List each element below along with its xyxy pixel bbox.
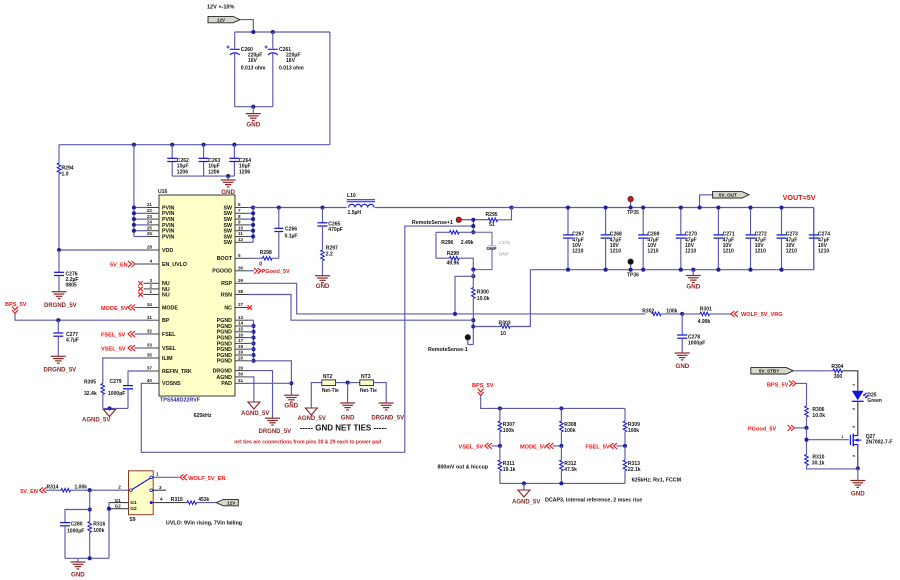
capacitor C265 xyxy=(318,208,343,250)
svg-text:R304: R304 xyxy=(831,364,843,370)
text UVLO note xyxy=(166,520,242,526)
svg-text:10: 10 xyxy=(238,225,244,230)
text S9 G1 G2 designators xyxy=(115,498,122,509)
svg-text:ILIM: ILIM xyxy=(162,356,173,362)
ground GND at R297 xyxy=(315,276,330,290)
svg-text:0.013 ohm: 0.013 ohm xyxy=(241,65,266,71)
svg-text:EN_UVLO: EN_UVLO xyxy=(162,262,187,268)
svg-text:453k: 453k xyxy=(198,497,209,503)
svg-text:RemoteSense-1: RemoteSense-1 xyxy=(428,347,468,353)
svg-text:R302: R302 xyxy=(642,309,654,315)
wire S9 gnd rail xyxy=(65,556,109,560)
svg-text:R299: R299 xyxy=(447,251,459,257)
svg-text:NT3: NT3 xyxy=(361,374,371,380)
svg-text:PVIN: PVIN xyxy=(162,234,175,240)
svg-text:Green: Green xyxy=(867,398,882,404)
diode D25 LED xyxy=(851,383,882,433)
svg-text:G2: G2 xyxy=(130,506,137,512)
wire SW pins vertical xyxy=(248,208,253,243)
svg-text:1000pF: 1000pF xyxy=(108,391,125,397)
svg-text:5V_EN: 5V_EN xyxy=(20,489,38,495)
junction C262 xyxy=(170,143,174,147)
svg-text:R314: R314 xyxy=(47,484,59,490)
svg-text:R300: R300 xyxy=(477,289,489,295)
svg-text:FSEL_5V: FSEL_5V xyxy=(101,333,126,339)
svg-text:19: 19 xyxy=(238,350,244,355)
power flag 5V_OUT xyxy=(698,192,750,210)
svg-text:4: 4 xyxy=(149,259,152,264)
svg-text:Net-Tie: Net-Tie xyxy=(360,388,377,394)
junction PVIN vert xyxy=(132,143,136,147)
resistor R309 xyxy=(623,408,640,446)
resistor R299 xyxy=(436,251,473,270)
wire S9 pin1 WOLF_5V_EN xyxy=(153,472,225,482)
svg-text:22: 22 xyxy=(147,208,153,213)
wire R316 branch xyxy=(88,490,92,521)
svg-text:2.49k: 2.49k xyxy=(461,240,474,246)
svg-text:22.1k: 22.1k xyxy=(628,467,641,473)
port MODE_5V xyxy=(101,305,147,313)
svg-text:Net-Tie: Net-Tie xyxy=(322,388,339,394)
text net ties note xyxy=(234,440,381,446)
svg-text:8: 8 xyxy=(238,214,241,219)
wire PAD41 xyxy=(248,382,291,384)
junction node B xyxy=(471,268,475,279)
port BPS_5V divider xyxy=(472,383,494,395)
capacitor C261 xyxy=(265,32,305,107)
svg-text:R303: R303 xyxy=(499,320,511,326)
svg-text:GND: GND xyxy=(246,122,260,129)
svg-text:R305: R305 xyxy=(84,379,96,385)
power flag 5V_STBY xyxy=(751,368,794,374)
ground DRGND_5V at NT3 xyxy=(371,383,404,422)
svg-text:R308: R308 xyxy=(564,422,576,428)
svg-text:GND: GND xyxy=(316,283,330,290)
wire divider bottom rail xyxy=(500,481,625,485)
svg-text:51: 51 xyxy=(489,222,495,228)
capacitor C262 xyxy=(167,145,189,176)
wire gate node xyxy=(804,428,808,455)
svg-text:VSEL_5V: VSEL_5V xyxy=(459,444,484,450)
svg-text:R315: R315 xyxy=(171,497,183,503)
junction C261 top xyxy=(271,30,275,34)
capacitor C271 xyxy=(713,205,734,271)
svg-text:10.0k: 10.0k xyxy=(812,413,825,419)
capacitor C263 xyxy=(199,145,221,176)
text 625kHz note xyxy=(632,477,682,483)
svg-text:33: 33 xyxy=(147,343,153,348)
svg-text:3: 3 xyxy=(149,278,152,283)
svg-text:10: 10 xyxy=(500,331,506,337)
svg-text:23: 23 xyxy=(147,214,153,219)
junction RSN node xyxy=(471,318,475,328)
svg-text:16V: 16V xyxy=(286,58,296,64)
text GND NET TIES xyxy=(300,424,387,433)
testpoint TP35 xyxy=(627,196,639,216)
testpoint RemoteSense-1 xyxy=(428,335,473,353)
svg-text:100k: 100k xyxy=(564,428,575,434)
ground GND decoupling xyxy=(221,176,236,196)
svg-text:20: 20 xyxy=(238,356,244,361)
capacitor C268 xyxy=(601,205,622,271)
svg-text:C266: C266 xyxy=(285,227,297,233)
svg-text:R316: R316 xyxy=(93,521,105,527)
wire PVIN feed vertical xyxy=(134,145,147,237)
svg-text:4: 4 xyxy=(160,497,163,502)
svg-text:VSEL: VSEL xyxy=(162,346,177,352)
svg-text:6: 6 xyxy=(238,202,241,207)
svg-text:R296: R296 xyxy=(441,240,453,246)
svg-text:AGND_5V: AGND_5V xyxy=(241,411,269,417)
svg-text:C275: C275 xyxy=(499,240,510,245)
port FSEL_5V xyxy=(101,331,147,339)
svg-text:DRGND_5V: DRGND_5V xyxy=(44,303,77,309)
svg-text:R298: R298 xyxy=(260,250,272,256)
svg-text:26: 26 xyxy=(147,231,153,236)
svg-text:800mV out & hiccup: 800mV out & hiccup xyxy=(438,464,489,470)
svg-text:PGood_5V: PGood_5V xyxy=(748,426,777,432)
ground DRGND_5V at C276 xyxy=(44,292,77,309)
svg-text:40: 40 xyxy=(147,378,153,383)
svg-text:32: 32 xyxy=(147,329,153,334)
junctions SW xyxy=(251,205,255,238)
svg-text:DCAP3, internal reference, 2 m: DCAP3, internal reference, 2 msec rise xyxy=(545,498,642,504)
resistor R308 xyxy=(560,408,577,446)
wire bulk cap bottom rail xyxy=(235,106,273,108)
svg-text:L10: L10 xyxy=(347,193,356,199)
wire output gnd rail xyxy=(530,269,813,271)
svg-text:R309: R309 xyxy=(628,422,640,428)
resistor R300 xyxy=(472,270,490,345)
ground GND at C278 xyxy=(675,353,690,370)
svg-text:30: 30 xyxy=(238,372,244,377)
svg-text:VSEL_5V: VSEL_5V xyxy=(101,347,126,353)
svg-text:DNP: DNP xyxy=(487,246,498,252)
svg-text:NU: NU xyxy=(162,292,170,298)
svg-text:1210: 1210 xyxy=(685,249,696,255)
port PGood_5V at PGOOD xyxy=(248,268,290,275)
svg-text:3: 3 xyxy=(159,485,162,490)
svg-text:DRGND_5V: DRGND_5V xyxy=(259,429,292,435)
wire SW node xyxy=(253,205,347,209)
resistor R310 xyxy=(805,454,858,469)
svg-text:1000pF: 1000pF xyxy=(688,340,705,346)
ground DRGND_5V pin29 xyxy=(248,371,291,436)
wire RSP trace xyxy=(248,283,646,316)
svg-text:PGND: PGND xyxy=(217,359,232,365)
svg-text:4.7µF: 4.7µF xyxy=(66,338,79,344)
svg-text:NT2: NT2 xyxy=(323,374,333,380)
inductor L10 xyxy=(347,193,375,216)
resistor R303 xyxy=(473,270,530,337)
capacitor C267 xyxy=(563,205,584,271)
svg-text:G2: G2 xyxy=(115,504,122,509)
svg-text:R313: R313 xyxy=(628,461,640,467)
resistor R301 xyxy=(682,307,731,325)
svg-text:11: 11 xyxy=(238,231,243,236)
svg-text:12: 12 xyxy=(238,237,244,242)
svg-text:RSP: RSP xyxy=(221,281,232,287)
svg-text:37: 37 xyxy=(147,366,153,371)
svg-text:0805: 0805 xyxy=(66,283,77,289)
svg-text:1206: 1206 xyxy=(208,169,219,175)
svg-text:28: 28 xyxy=(147,245,153,250)
ground AGND_5V divider xyxy=(512,483,540,505)
power flag 12V bottom xyxy=(216,499,238,505)
junction 12V drop xyxy=(251,30,255,34)
resistor R302 xyxy=(642,309,682,316)
junction C263 xyxy=(202,143,206,147)
svg-text:DRGND_5V: DRGND_5V xyxy=(44,368,77,374)
svg-text:470pF: 470pF xyxy=(328,227,343,233)
svg-text:100k: 100k xyxy=(503,428,514,434)
svg-text:625kHz; Rx1, FCCM: 625kHz; Rx1, FCCM xyxy=(632,477,682,483)
svg-text:R295: R295 xyxy=(486,212,498,218)
svg-text:12V: 12V xyxy=(217,17,226,22)
text Q27 pin3 xyxy=(851,454,856,457)
junction decoupling gnd xyxy=(226,174,230,178)
svg-text:21: 21 xyxy=(147,202,153,207)
stub S9 pin3 xyxy=(153,485,166,490)
svg-text:1.5µH: 1.5µH xyxy=(348,210,362,216)
resistor R306 xyxy=(805,406,826,428)
junction R314 node xyxy=(88,485,122,493)
ground GND pin20 pad xyxy=(254,361,299,410)
svg-text:300: 300 xyxy=(834,374,843,380)
svg-text:UVLO: 9Vin rising, 7Vin fallin: UVLO: 9Vin rising, 7Vin falling xyxy=(166,520,242,526)
resistor R307 xyxy=(498,408,515,446)
resistor R298 xyxy=(248,250,279,267)
junction R302 R301 xyxy=(680,312,684,316)
svg-text:GND: GND xyxy=(851,491,865,498)
wire RSN trace xyxy=(248,295,473,321)
resistor R305 xyxy=(84,358,147,408)
wire R305 C279 rail xyxy=(103,406,128,410)
svg-text:1210: 1210 xyxy=(755,249,766,255)
U16 left pin stubs and names xyxy=(147,202,192,387)
ground GND LED xyxy=(850,468,865,497)
wire PGND vertical xyxy=(248,320,256,363)
no-connect X NC pin xyxy=(248,305,252,309)
resistor R314 xyxy=(47,484,129,492)
svg-text:GND: GND xyxy=(341,415,355,422)
power flag 12V xyxy=(208,16,240,22)
svg-text:PGood_5V: PGood_5V xyxy=(262,269,291,275)
svg-text:C280: C280 xyxy=(71,521,83,527)
resistor R312 xyxy=(560,446,578,484)
svg-text:1210: 1210 xyxy=(818,249,829,255)
svg-text:DNP: DNP xyxy=(499,252,509,257)
capacitor C275 DNP xyxy=(473,232,510,269)
svg-text:1210: 1210 xyxy=(786,249,797,255)
svg-text:12V: 12V xyxy=(227,500,236,505)
svg-text:1: 1 xyxy=(156,472,159,477)
junctions PVIN xyxy=(132,205,136,232)
wire VOSNS remote sense xyxy=(141,226,473,452)
text 800mV note xyxy=(438,464,489,470)
port BPS_5V LED xyxy=(767,381,807,407)
ground GND output xyxy=(686,268,701,291)
svg-text:19.1k: 19.1k xyxy=(503,467,516,473)
svg-text:WOLF_5V_VRG: WOLF_5V_VRG xyxy=(741,312,783,318)
wire VDD xyxy=(57,248,147,252)
capacitor C279 xyxy=(108,371,147,408)
svg-text:BPS_5V: BPS_5V xyxy=(5,302,27,308)
net-tie NT2 xyxy=(311,374,339,408)
ground AGND_5V pin30 xyxy=(241,377,269,417)
U16 right pin stubs and names xyxy=(212,202,248,387)
svg-text:0.013 ohm: 0.013 ohm xyxy=(279,65,304,71)
svg-text:2: 2 xyxy=(149,284,152,289)
ground AGND_5V analog xyxy=(82,408,116,423)
svg-text:WOLF_5V_EN: WOLF_5V_EN xyxy=(188,476,225,482)
svg-text:1210: 1210 xyxy=(610,249,621,255)
svg-text:29: 29 xyxy=(238,365,244,370)
resistor R315 xyxy=(153,497,216,505)
svg-text:G1: G1 xyxy=(130,500,137,506)
svg-text:16: 16 xyxy=(238,332,244,337)
capacitor C266 boot xyxy=(274,208,297,259)
svg-text:7: 7 xyxy=(238,208,241,213)
svg-text:24: 24 xyxy=(147,220,153,225)
ground GND between net ties xyxy=(340,383,355,422)
svg-text:SW: SW xyxy=(223,240,232,246)
resistor R295 xyxy=(462,208,512,228)
wire VIN main bus xyxy=(59,144,330,146)
svg-text:TP35: TP35 xyxy=(627,210,639,216)
port VSEL_5V xyxy=(101,345,147,353)
svg-text:GND: GND xyxy=(284,402,298,409)
capacitor C270 xyxy=(676,205,697,271)
capacitor C264 xyxy=(229,145,251,176)
capacitor C260 xyxy=(227,32,266,107)
svg-text:14: 14 xyxy=(238,321,244,326)
svg-text:100k: 100k xyxy=(666,309,677,315)
svg-text:BPS_5V: BPS_5V xyxy=(767,382,789,388)
svg-text:25: 25 xyxy=(147,225,153,230)
svg-text:5V_STBY: 5V_STBY xyxy=(759,369,779,374)
svg-text:VDD: VDD xyxy=(162,248,173,254)
svg-text:18: 18 xyxy=(238,344,244,349)
capacitor C278 xyxy=(677,314,705,353)
svg-text:----- GND NET TIES -----: ----- GND NET TIES ----- xyxy=(300,424,387,433)
svg-text:49.9k: 49.9k xyxy=(447,261,460,267)
wire L10 to VOUT xyxy=(375,205,514,209)
svg-text:47.5k: 47.5k xyxy=(564,467,577,473)
text DCAP3 note xyxy=(545,498,642,504)
svg-text:C279: C279 xyxy=(110,379,122,385)
net-tie NT3 xyxy=(360,374,377,394)
svg-text:41: 41 xyxy=(238,378,244,383)
svg-text:38: 38 xyxy=(238,289,244,294)
svg-text:AGND_5V: AGND_5V xyxy=(512,499,540,505)
svg-text:30.1k: 30.1k xyxy=(812,460,825,466)
svg-text:DRGND: DRGND xyxy=(213,369,233,375)
svg-text:1206: 1206 xyxy=(239,169,250,175)
port VSEL_5V xyxy=(459,443,502,450)
svg-text:4.99k: 4.99k xyxy=(698,319,711,325)
wire BP row xyxy=(15,314,147,322)
svg-text:2N7002-7-F: 2N7002-7-F xyxy=(866,440,893,446)
wire divider top rail xyxy=(481,395,625,410)
svg-text:13: 13 xyxy=(238,315,244,320)
svg-text:1210: 1210 xyxy=(723,249,734,255)
svg-text:net ties are connections from: net ties are connections from pins 30 & … xyxy=(234,440,381,446)
svg-text:5V_EN: 5V_EN xyxy=(110,262,128,268)
svg-text:35: 35 xyxy=(147,353,153,358)
svg-text:625kHz: 625kHz xyxy=(194,413,212,419)
svg-text:R312: R312 xyxy=(564,461,576,467)
junction bulk gnd xyxy=(251,105,255,109)
port PGood_5V LED xyxy=(748,425,809,432)
testpoint RemoteSense+1 xyxy=(412,217,462,226)
capacitor C276 xyxy=(54,250,79,291)
wire NT2 NT3 middle xyxy=(336,381,360,385)
svg-text:FSEL: FSEL xyxy=(162,332,176,338)
svg-text:BPS_5V: BPS_5V xyxy=(472,383,494,389)
svg-text:5V_OUT: 5V_OUT xyxy=(719,193,737,198)
resistor R296 xyxy=(436,231,474,246)
wire node B to RSP xyxy=(455,276,473,314)
svg-text:R311: R311 xyxy=(503,461,515,467)
port MODE_5V xyxy=(520,443,563,450)
svg-text:9: 9 xyxy=(238,220,241,225)
svg-text:VOSNS: VOSNS xyxy=(162,381,181,387)
ground DRGND_5V at C277 xyxy=(44,356,77,373)
svg-text:TP36: TP36 xyxy=(627,272,639,278)
svg-text:1000pF: 1000pF xyxy=(67,529,84,535)
svg-text:2.2: 2.2 xyxy=(326,251,333,257)
op-amp U16 TPS548D22RVF body xyxy=(158,189,235,419)
svg-text:17: 17 xyxy=(238,338,244,343)
resistor R297 xyxy=(321,246,338,276)
svg-text:R301: R301 xyxy=(700,307,712,313)
svg-text:1210: 1210 xyxy=(647,249,658,255)
svg-text:U16: U16 xyxy=(158,189,167,195)
svg-text:MODE_5V: MODE_5V xyxy=(101,306,128,312)
svg-text:RSN: RSN xyxy=(221,292,232,298)
svg-text:1: 1 xyxy=(149,289,152,294)
svg-text:10.0k: 10.0k xyxy=(477,296,490,302)
svg-text:TPS548D22RVF: TPS548D22RVF xyxy=(160,397,201,403)
port FSEL_5V xyxy=(585,443,627,450)
svg-text:16V: 16V xyxy=(248,58,258,64)
capacitor C269 xyxy=(638,205,659,271)
svg-text:36: 36 xyxy=(238,266,244,271)
svg-text:DRGND_5V: DRGND_5V xyxy=(371,416,404,422)
wire node A column xyxy=(471,218,475,235)
testpoint TP36 xyxy=(627,259,639,278)
svg-text:100k: 100k xyxy=(628,428,639,434)
svg-text:MODE_5V: MODE_5V xyxy=(520,444,547,450)
capacitor C273 xyxy=(777,205,798,271)
resistor R313 xyxy=(623,446,641,484)
svg-text:REFIN_TRK: REFIN_TRK xyxy=(162,369,192,375)
ground GND bulk caps xyxy=(246,107,261,129)
no-connect X NU pins xyxy=(138,281,147,297)
svg-text:1.0: 1.0 xyxy=(62,172,69,178)
wire R296 R299 left tie xyxy=(435,232,437,258)
svg-text:VOUT=5V: VOUT=5V xyxy=(783,193,816,202)
svg-text:RemoteSense+1: RemoteSense+1 xyxy=(412,220,453,226)
resistor R316 xyxy=(88,521,106,558)
svg-text:AGND_5V: AGND_5V xyxy=(298,416,326,422)
svg-text:AGND: AGND xyxy=(216,375,232,381)
capacitor C274 xyxy=(809,208,830,270)
junction Q27 source xyxy=(856,466,860,470)
wire VIN right drop xyxy=(329,32,331,145)
svg-text:1206: 1206 xyxy=(177,169,188,175)
